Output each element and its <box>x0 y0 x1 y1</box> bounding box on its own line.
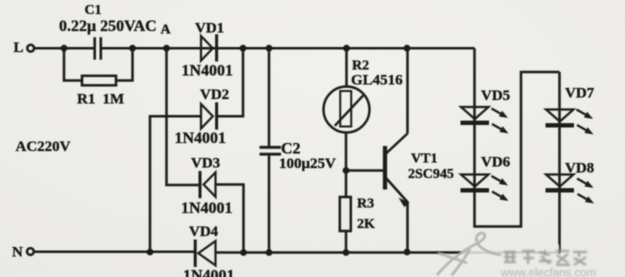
svg-text:0.22μ 250VAC: 0.22μ 250VAC <box>59 18 157 35</box>
watermark fade over rail <box>461 245 559 259</box>
svg-text:1N4001: 1N4001 <box>183 268 235 277</box>
capacitor C2 <box>260 147 282 154</box>
svg-text:VT1: VT1 <box>411 152 437 167</box>
svg-text:R1: R1 <box>77 92 95 108</box>
svg-text:R2: R2 <box>352 59 369 74</box>
LED VD5 <box>461 107 508 133</box>
diode VD4 <box>195 240 215 268</box>
wire LED column 2 <box>558 72 561 253</box>
diode VD3 <box>200 171 216 198</box>
wire top rail <box>35 47 475 50</box>
wire VD2 cathode riser to top rail <box>217 48 243 116</box>
wire R3 bottom <box>345 231 348 253</box>
photoresistor R2 <box>324 87 370 133</box>
wire bottom rail <box>35 251 560 254</box>
junction base node <box>343 167 350 174</box>
junction R2 top <box>343 45 350 52</box>
svg-text:1N4001: 1N4001 <box>181 200 233 217</box>
wire C2 <box>268 48 271 252</box>
junction VD3 riser bottom <box>240 249 247 256</box>
svg-text:VD7: VD7 <box>565 86 595 102</box>
svg-text:100μ25V: 100μ25V <box>279 156 336 172</box>
terminal N <box>27 248 34 255</box>
svg-text:2SC945: 2SC945 <box>408 167 454 182</box>
svg-text:VD3: VD3 <box>191 156 220 172</box>
svg-text:C2: C2 <box>281 141 301 158</box>
svg-text:VD8: VD8 <box>565 161 594 177</box>
svg-text:C1: C1 <box>85 3 102 18</box>
svg-text:GL4516: GL4516 <box>351 73 403 89</box>
wire A to VD3 row (crossover at VD2 row) <box>167 48 201 185</box>
wire emitter drop <box>406 201 409 253</box>
wire N riser to VD2 row <box>150 116 201 252</box>
node A <box>163 45 170 52</box>
resistor R1 <box>82 76 116 86</box>
diode VD2 <box>201 102 217 129</box>
svg-text:VD6: VD6 <box>481 155 511 171</box>
watermark logo and text <box>437 233 596 277</box>
wire R2 bottom to R3 <box>345 133 348 198</box>
junction N riser <box>147 249 154 256</box>
wire R1 loop <box>64 48 133 80</box>
svg-text:1N4001: 1N4001 <box>175 130 227 147</box>
LED VD8 <box>546 175 594 203</box>
terminal L <box>27 45 34 52</box>
capacitor C1 <box>95 37 101 60</box>
svg-text:AC220V: AC220V <box>16 139 71 155</box>
svg-text:N: N <box>12 245 23 261</box>
wire collector riser <box>406 48 409 133</box>
svg-text:VD4: VD4 <box>189 224 219 240</box>
node junction left of C1 <box>61 45 68 52</box>
svg-text:VD1: VD1 <box>195 21 224 37</box>
wire R2 top <box>345 48 348 86</box>
svg-text:A: A <box>161 23 172 38</box>
junction R3 bottom <box>343 249 350 256</box>
transistor VT1 <box>385 134 408 207</box>
junction VD2 riser top <box>240 45 247 52</box>
wire base <box>346 169 383 172</box>
svg-text:1N4001: 1N4001 <box>182 63 234 80</box>
svg-text:VD5: VD5 <box>481 88 510 104</box>
junction VT1 collector top <box>404 45 411 52</box>
wire LED column 1 <box>475 48 560 226</box>
svg-text:L: L <box>14 40 24 56</box>
svg-text:VD2: VD2 <box>200 87 229 103</box>
junction C2 bottom <box>266 249 273 256</box>
diode VD1 <box>201 34 217 61</box>
wire VD3 anode riser to bottom rail <box>216 185 244 253</box>
LED VD7 <box>546 110 593 134</box>
node junction right of C1 <box>129 45 136 52</box>
svg-text:1M: 1M <box>103 92 125 108</box>
LED VD6 <box>461 175 508 201</box>
svg-text:R3: R3 <box>357 197 374 212</box>
resistor R3 <box>340 197 351 231</box>
svg-text:2K: 2K <box>357 217 375 232</box>
svg-text:www.elecfans.com: www.elecfans.com <box>500 268 596 277</box>
junction emitter bottom <box>404 249 411 256</box>
junction C2 top <box>266 45 273 52</box>
